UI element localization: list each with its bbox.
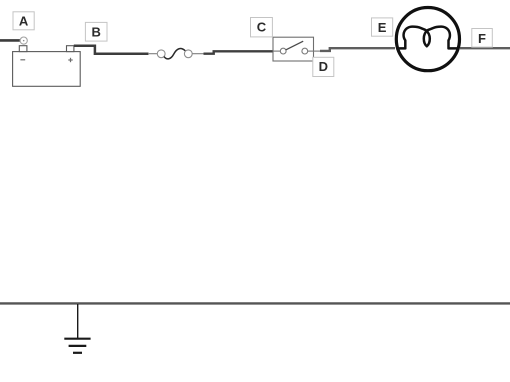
ground bus: [0, 302, 510, 304]
ground symbol: [64, 339, 90, 353]
svg-text:A: A: [19, 14, 29, 29]
svg-text:C: C: [257, 20, 267, 35]
ground wire: [77, 304, 79, 338]
wire lamp to right edge: [460, 47, 510, 49]
wire from left edge to battery negative terminal: [0, 39, 21, 42]
svg-text:B: B: [92, 25, 101, 40]
fuse F1: [148, 49, 204, 59]
battery B1: [13, 46, 81, 87]
label B: [85, 22, 107, 41]
svg-text:F: F: [478, 31, 486, 46]
svg-text:E: E: [378, 20, 387, 35]
battery negative terminal connector (node A): [20, 37, 27, 44]
label E: [372, 18, 393, 36]
wire switch to lamp: [320, 48, 395, 51]
label F: [472, 29, 493, 48]
wire battery positive to fuse: [74, 46, 149, 54]
wire fuse to switch: [204, 51, 274, 53]
lamp E1 (bulb with filament): [396, 7, 459, 70]
svg-text:D: D: [319, 59, 328, 74]
switch S1: [273, 37, 320, 61]
label C: [251, 18, 273, 37]
label A: [13, 12, 34, 30]
label D: [313, 57, 334, 76]
